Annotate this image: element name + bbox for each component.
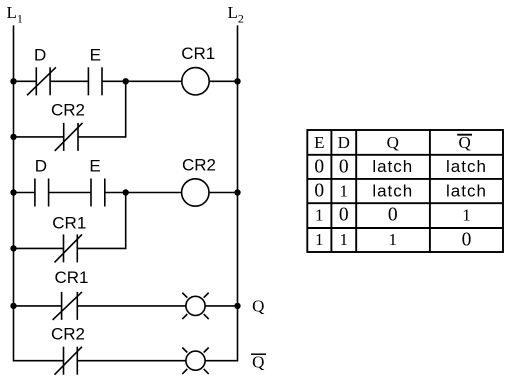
svg-text:0: 0 (314, 156, 324, 177)
junction node rail1-rung2 (10, 189, 16, 195)
wire rung1 mid (50, 80, 88, 82)
svg-text:D: D (35, 156, 47, 175)
svg-text:1: 1 (462, 206, 471, 225)
junction node rail2-rung1 (234, 78, 240, 84)
wire rung4 lamp to rail (205, 360, 237, 362)
svg-text:E: E (314, 133, 324, 152)
svg-text:CR2: CR2 (182, 156, 216, 175)
wire rung4 left (14, 360, 64, 362)
wire rung1 coil to rail (209, 80, 237, 82)
junction node rail1-rung1b (10, 134, 16, 140)
svg-text:E: E (89, 156, 100, 175)
svg-text:CR1: CR1 (54, 268, 88, 287)
junction node rail1-rung2b (10, 245, 16, 251)
svg-text:CR1: CR1 (52, 213, 86, 232)
svg-text:0: 0 (339, 156, 349, 177)
svg-text:Q: Q (252, 296, 264, 315)
svg-text:1: 1 (389, 230, 398, 249)
contact D NO rung2 (35, 179, 49, 207)
svg-text:1: 1 (315, 230, 324, 249)
svg-text:1: 1 (340, 181, 349, 200)
svg-text:CR2: CR2 (51, 325, 85, 344)
wire rung2b left (14, 247, 64, 249)
coil CR2 (182, 179, 209, 206)
junction node rail2-rung2 (234, 189, 240, 195)
coil CR1 (182, 68, 209, 95)
wire rung4 right (77, 360, 186, 362)
junction node branch2-rung2 (123, 189, 129, 195)
svg-text:CR2: CR2 (51, 101, 85, 120)
svg-text:E: E (90, 46, 101, 65)
contact CR2 NC rung1b (55, 123, 83, 151)
wire rung3 lamp to rail (205, 305, 237, 307)
wire branch1 vertical (125, 81, 127, 137)
wire rung2 left (14, 192, 35, 194)
wire rung1 right (102, 80, 182, 82)
contact E NO rung1 (88, 67, 102, 95)
junction node rail1-rung3 (10, 303, 16, 309)
svg-text:Q: Q (252, 353, 264, 372)
wire rung2 mid (49, 192, 91, 194)
lamp Q (182, 293, 208, 319)
svg-text:0: 0 (314, 181, 324, 202)
right rail L2 (237, 25, 239, 361)
svg-text:0: 0 (388, 205, 398, 226)
label Qbar output (251, 353, 266, 372)
wire rung3 left (14, 305, 62, 307)
svg-text:latch: latch (372, 157, 413, 176)
svg-text:1: 1 (340, 230, 349, 249)
svg-text:1: 1 (315, 206, 324, 225)
junction node rail1-rung1 (10, 78, 16, 84)
wire rung1b left (14, 136, 64, 138)
svg-text:latch: latch (372, 181, 413, 200)
wire rung2b right (77, 247, 125, 249)
svg-text:D: D (338, 133, 350, 152)
svg-text:latch: latch (446, 181, 487, 200)
lamp Qbar (182, 348, 208, 374)
svg-text:Q: Q (458, 133, 470, 152)
contact CR1 NC rung2b (55, 234, 83, 262)
wire rung1 left (14, 80, 37, 82)
wire rung3 right (77, 305, 186, 307)
svg-text:0: 0 (462, 230, 472, 251)
svg-text:latch: latch (446, 157, 487, 176)
svg-text:Q: Q (387, 133, 399, 152)
svg-text:CR1: CR1 (181, 44, 215, 63)
contact D NC rung1 (27, 67, 56, 95)
svg-text:D: D (34, 46, 46, 65)
svg-text:L2: L2 (228, 3, 244, 26)
junction node rail2-rung3 (234, 303, 240, 309)
table header Qbar (457, 133, 472, 152)
wire branch2 vertical (125, 193, 127, 250)
truth table grid (307, 130, 503, 252)
contact CR1 NC rung3 (53, 292, 82, 320)
left rail L1 (13, 25, 15, 361)
svg-text:L1: L1 (7, 3, 23, 26)
wire rung2 coil to rail (209, 192, 238, 194)
wire rung2 right (105, 192, 182, 194)
junction node branch1-rung1 (123, 78, 129, 84)
wire rung1b right (78, 136, 126, 138)
contact E NO rung2 (91, 179, 105, 207)
contact CR2 NC rung4 (55, 347, 83, 375)
svg-text:0: 0 (339, 205, 349, 226)
